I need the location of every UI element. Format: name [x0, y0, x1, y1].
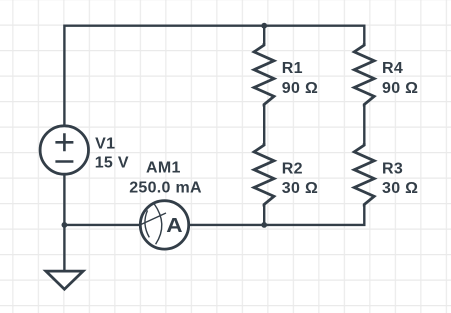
resistor R1: [254, 43, 274, 106]
svg-text:R1: R1: [282, 60, 303, 77]
svg-text:90 Ω: 90 Ω: [282, 80, 318, 97]
node junction top rail: [261, 23, 267, 29]
wire bottom rail from R3 to ammeter: [190, 204, 365, 225]
svg-text:250.0 mA: 250.0 mA: [129, 179, 202, 196]
node junction bottom middle: [261, 222, 267, 228]
wire V1 bottom to ground: [63, 175, 65, 271]
wire middle branch bottom stub: [263, 204, 265, 225]
wire top rail from V1 to R4 branch: [64, 26, 364, 127]
svg-text:AM1: AM1: [146, 160, 181, 177]
svg-text:R3: R3: [382, 160, 403, 177]
resistor R4: [354, 43, 374, 106]
svg-text:30 Ω: 30 Ω: [282, 180, 318, 197]
wire bottom rail from ammeter to ground node: [64, 224, 140, 226]
svg-text:15 V: 15 V: [95, 154, 129, 171]
ground: [46, 271, 83, 289]
svg-text:R2: R2: [282, 160, 303, 177]
wire middle branch top stub: [263, 26, 265, 45]
ammeter AM1: [139, 201, 188, 249]
svg-text:A: A: [166, 214, 183, 236]
resistor R2: [254, 143, 274, 206]
svg-text:90 Ω: 90 Ω: [382, 80, 418, 97]
svg-text:R4: R4: [382, 60, 403, 77]
wire between R1 and R2: [263, 104, 265, 146]
node junction bottom left: [62, 222, 68, 228]
svg-text:V1: V1: [95, 135, 115, 152]
resistor R3: [354, 143, 374, 206]
voltage source V1: [40, 126, 88, 174]
svg-text:30 Ω: 30 Ω: [382, 180, 418, 197]
wire between R4 and R3: [363, 104, 365, 146]
